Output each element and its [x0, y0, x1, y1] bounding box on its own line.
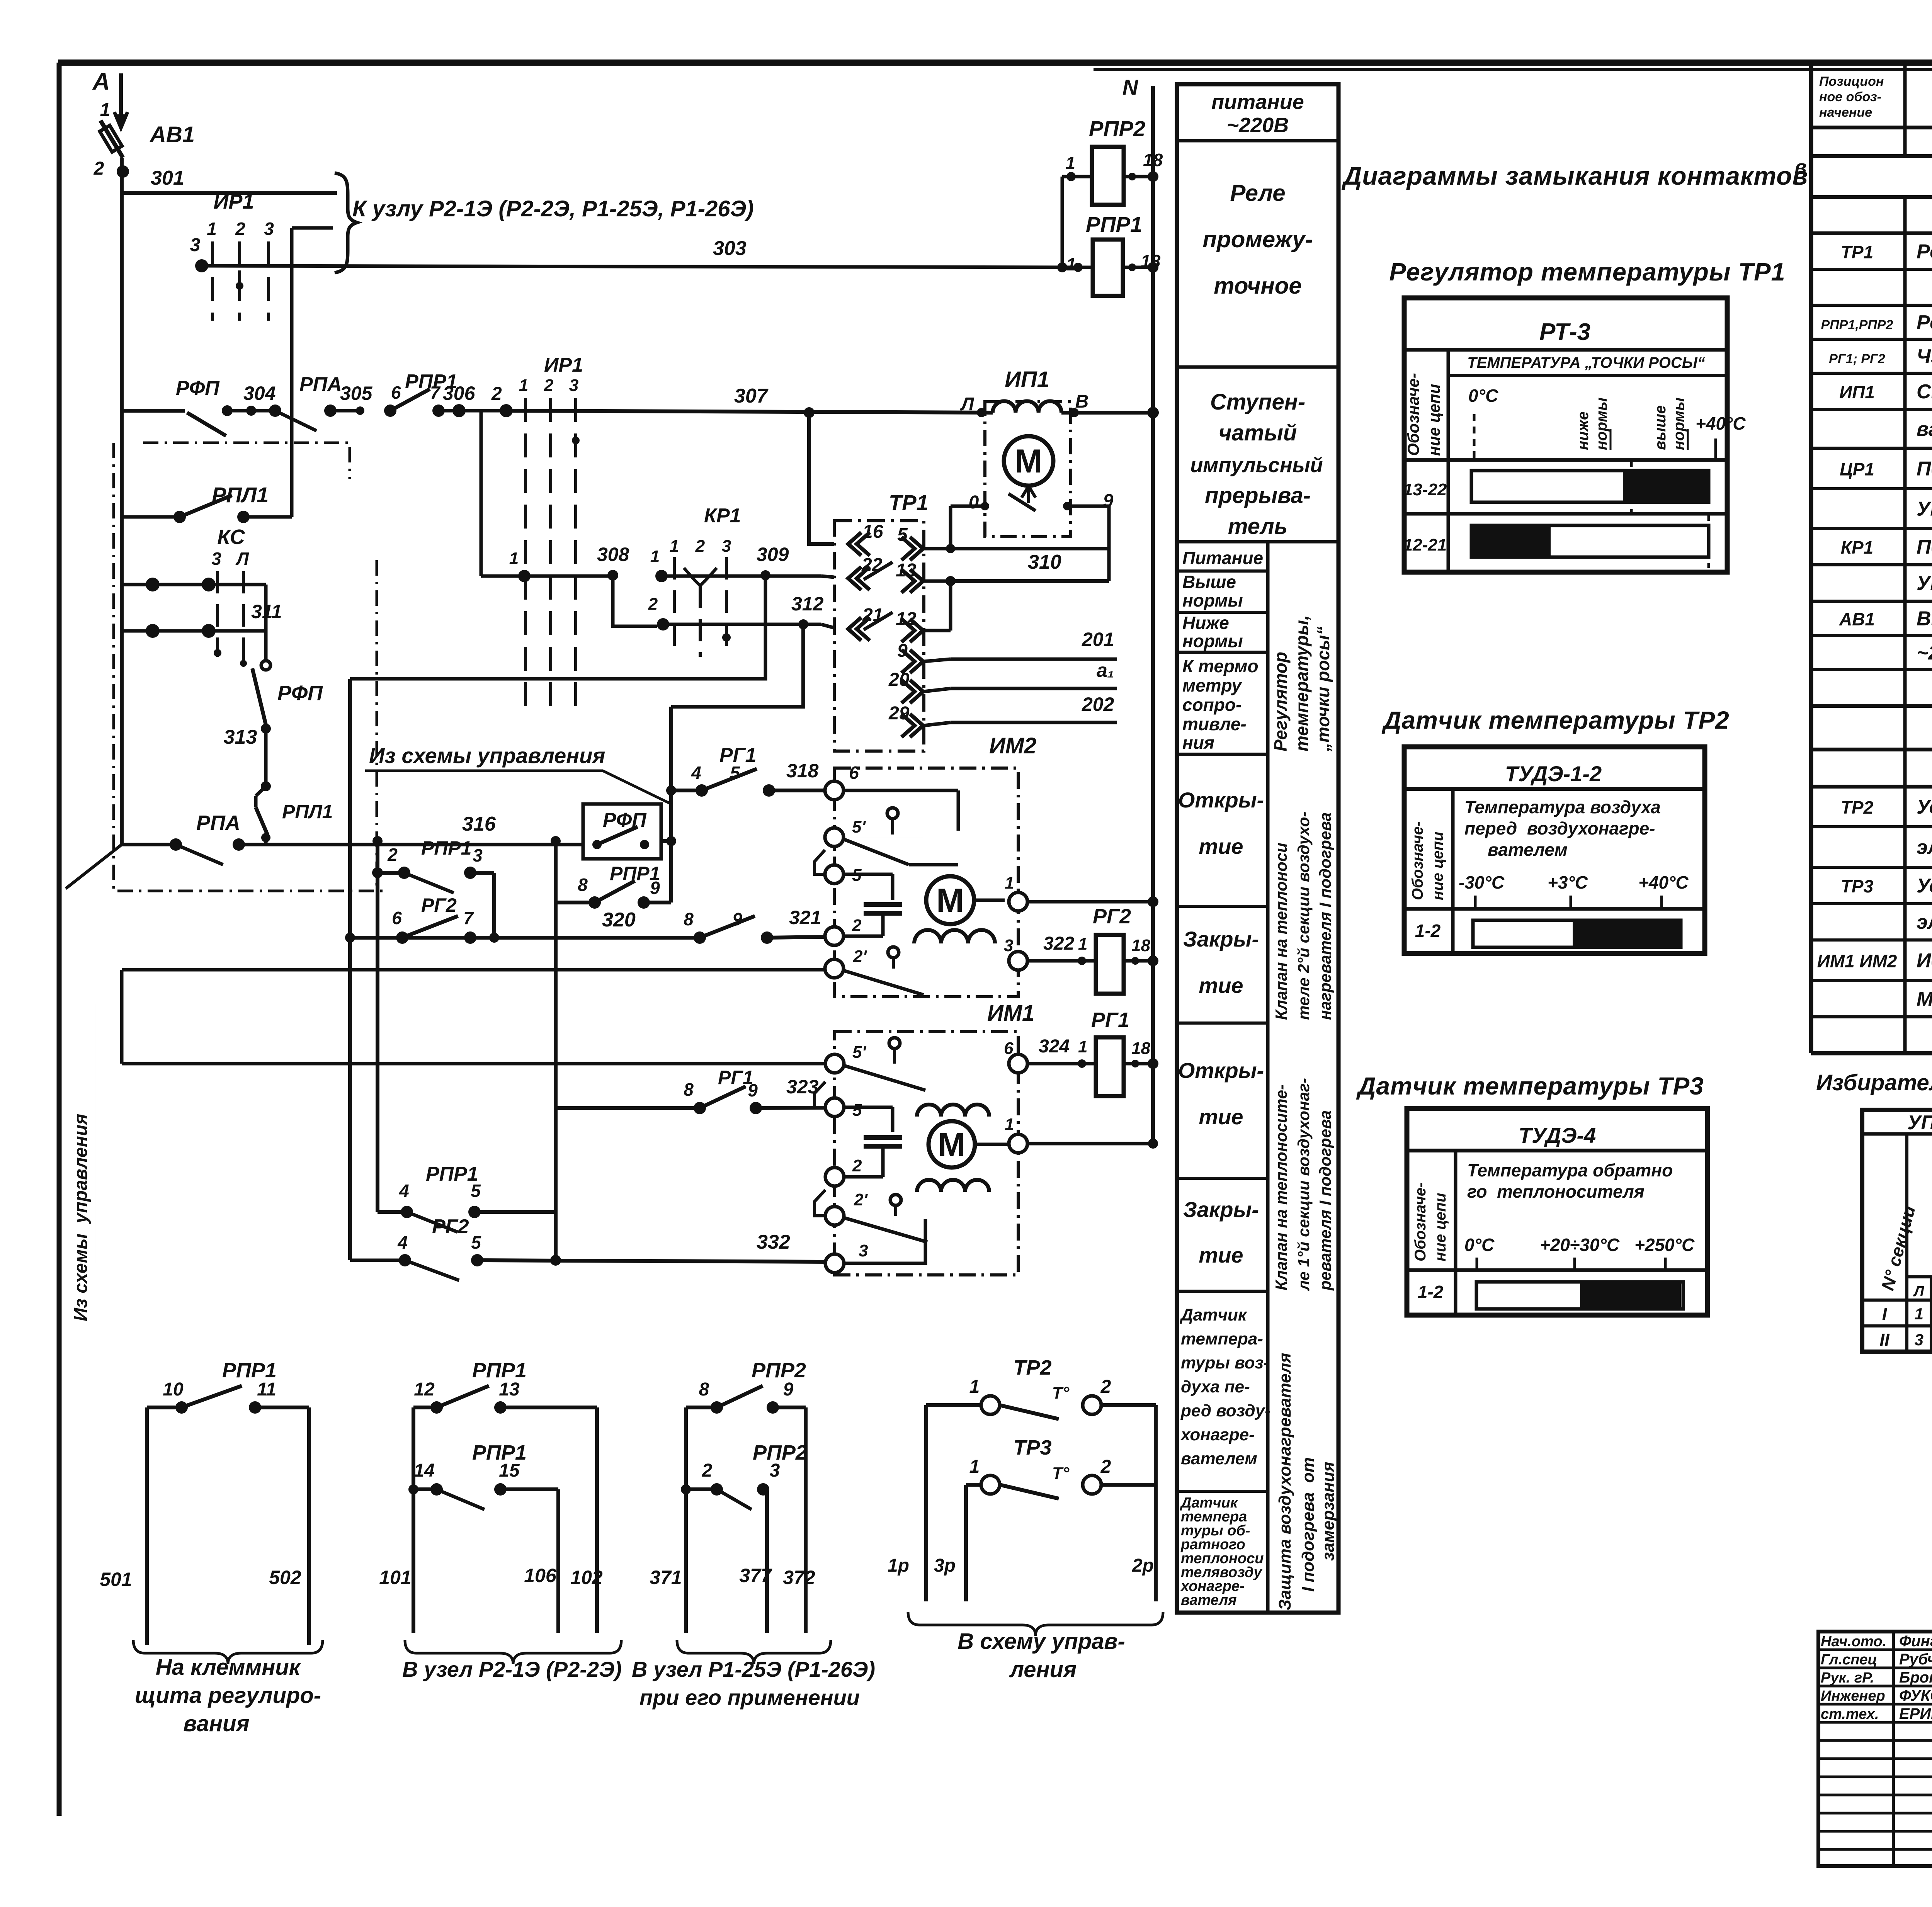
svg-text:13-22: 13-22 — [1403, 480, 1447, 499]
svg-text:1: 1 — [100, 100, 111, 120]
svg-text:322: 322 — [1043, 933, 1074, 954]
svg-text:при его применении: при его применении — [639, 1685, 860, 1710]
svg-text:14: 14 — [414, 1460, 434, 1481]
svg-text:импульсный: импульсный — [1190, 454, 1323, 477]
svg-text:РПЛ1: РПЛ1 — [212, 483, 269, 507]
svg-text:теле 2°й секции воздухо-: теле 2°й секции воздухо- — [1294, 812, 1313, 1020]
svg-text:ления: ления — [1009, 1657, 1077, 1682]
svg-text:16: 16 — [862, 522, 883, 542]
svg-text:1: 1 — [670, 537, 679, 556]
svg-text:Рук. гР.: Рук. гР. — [1821, 1670, 1874, 1686]
svg-text:щита регулиро-: щита регулиро- — [135, 1683, 321, 1708]
svg-text:8: 8 — [699, 1379, 709, 1400]
svg-text:Закры-: Закры- — [1183, 1197, 1259, 1222]
IM2 capacitor — [864, 902, 902, 907]
svg-text:1: 1 — [519, 376, 528, 395]
svg-text:I подогрева от: I подогрева от — [1299, 1457, 1318, 1592]
svg-text:К термо: К термо — [1182, 656, 1259, 676]
svg-text:ное обоз-: ное обоз- — [1819, 90, 1881, 104]
wire 309 branch down-left — [350, 575, 765, 679]
svg-text:ТР2: ТР2 — [1013, 1356, 1051, 1379]
svg-text:Закры-: Закры- — [1183, 927, 1259, 951]
svg-text:6: 6 — [391, 382, 401, 403]
svg-text:2: 2 — [695, 537, 705, 556]
svg-text:перед воздухонагре-: перед воздухонагре- — [1464, 818, 1655, 838]
svg-text:Позицион: Позицион — [1819, 74, 1884, 89]
svg-text:313: 313 — [224, 726, 257, 748]
IM1 terminal 2prime contact — [825, 1207, 844, 1225]
svg-text:1-2: 1-2 — [1418, 1282, 1444, 1302]
svg-text:501: 501 — [100, 1569, 132, 1590]
wire IR1-to-RPL1 vertical — [290, 267, 294, 517]
svg-text:ле 1°й секции воздухонаг-: ле 1°й секции воздухонаг- — [1294, 1078, 1313, 1291]
svg-text:тие: тие — [1199, 1105, 1243, 1129]
svg-text:РТ-3: РТ-3 — [1539, 319, 1590, 345]
svg-text:9: 9 — [897, 641, 908, 661]
svg-text:5: 5 — [730, 763, 740, 783]
svg-text:тие: тие — [1199, 834, 1243, 858]
svg-text:18: 18 — [1131, 936, 1150, 955]
svg-text:духа пе-: духа пе- — [1181, 1377, 1250, 1396]
svg-text:УП 53.11- С 225 ТУ16-52: УП 53.11- С 225 ТУ16-524. 074-75 — [1917, 498, 1932, 520]
svg-text:3: 3 — [264, 219, 274, 239]
svg-text:2: 2 — [544, 376, 554, 395]
wire 301 — [122, 191, 337, 195]
svg-text:ние цепи: ние цепи — [1432, 1193, 1449, 1261]
svg-text:Ступенчатый импульсный преры: Ступенчатый импульсный преры- — [1917, 381, 1932, 403]
bus A vertical — [120, 158, 124, 845]
svg-text:тель: тель — [1228, 514, 1287, 539]
svg-text:2: 2 — [491, 384, 502, 404]
TR1 contact 16 — [848, 532, 861, 556]
IM1 terminal 2 — [825, 1168, 844, 1186]
svg-text:ТУДЭ-4: ТУДЭ-4 — [1519, 1123, 1596, 1147]
svg-text:ТР3: ТР3 — [1013, 1436, 1051, 1459]
svg-text:5': 5' — [852, 1043, 866, 1062]
svg-text:1-2: 1-2 — [1415, 921, 1441, 941]
svg-text:4: 4 — [397, 1232, 408, 1253]
svg-text:Устройство терморегулирующее: Устройство терморегулирующее — [1917, 875, 1932, 897]
svg-text:температуры,: температуры, — [1292, 615, 1312, 751]
svg-text:РФП: РФП — [277, 682, 323, 705]
svg-text:Ступен-: Ступен- — [1210, 389, 1305, 415]
KS row1 — [122, 583, 266, 586]
svg-text:+20÷30°С: +20÷30°С — [1540, 1235, 1620, 1255]
RFP relay box — [583, 804, 661, 859]
svg-text:КС: КС — [217, 525, 245, 549]
svg-text:РПА: РПА — [196, 811, 240, 835]
svg-text:12-21: 12-21 — [1403, 535, 1447, 554]
svg-text:ИМ2: ИМ2 — [989, 733, 1036, 758]
IM2 terminal 1 wire to N — [1009, 892, 1027, 911]
IM2 terminal 3 wire 322 — [1009, 952, 1027, 970]
svg-text:310: 310 — [1028, 551, 1061, 573]
svg-text:12: 12 — [896, 609, 917, 629]
svg-text:202: 202 — [1082, 693, 1114, 715]
svg-text:1: 1 — [1078, 935, 1087, 953]
svg-text:1: 1 — [1005, 874, 1014, 892]
svg-text:Из схемы управления: Из схемы управления — [71, 1114, 91, 1321]
svg-text:Чз + Чр ТУ16-523. 4: Чз + Чр ТУ16-523. 437-74 — [1917, 345, 1932, 368]
svg-text:ИР1: ИР1 — [214, 190, 254, 213]
IM1 terminal 5prime contact — [825, 1054, 844, 1073]
svg-text:В: В — [1075, 391, 1089, 412]
svg-text:ТР3: ТР3 — [1841, 876, 1874, 896]
svg-text:372: 372 — [783, 1567, 815, 1588]
diagram table RT-3 — [1404, 298, 1727, 572]
TR1 contact 13 — [910, 569, 923, 593]
middle legend table frame — [1177, 84, 1338, 1613]
svg-text:5: 5 — [471, 1181, 481, 1201]
svg-text:+40°С: +40°С — [1696, 413, 1746, 433]
svg-text:ЦР1: ЦР1 — [1840, 459, 1874, 479]
svg-text:Реле промежуточное ПЭ-21-5УЗ: Реле промежуточное ПЭ-21-5УЗ ~220В — [1917, 311, 1932, 334]
svg-text:3: 3 — [473, 845, 483, 865]
svg-text:+3°С: +3°С — [1548, 872, 1588, 892]
svg-text:Фингер: Фингер — [1899, 1633, 1932, 1650]
TR1 contact 5 — [910, 537, 923, 560]
svg-text:хонагре-: хонагре- — [1180, 1425, 1255, 1444]
svg-text:нормы: нормы — [1182, 590, 1243, 610]
svg-text:АВ1: АВ1 — [149, 122, 195, 147]
svg-text:8: 8 — [684, 1079, 694, 1100]
svg-text:Т°: Т° — [1052, 1384, 1070, 1402]
svg-text:Переключатель универсальный: Переключатель универсальный — [1917, 536, 1932, 558]
svg-text:2: 2 — [648, 595, 658, 614]
svg-text:307: 307 — [734, 385, 769, 407]
svg-text:выше: выше — [1652, 405, 1669, 450]
svg-text:201: 201 — [1082, 629, 1114, 650]
TR1 contact 29 wire 202 — [910, 714, 923, 737]
wire 303 — [202, 266, 1093, 267]
svg-text:туры воз-: туры воз- — [1181, 1353, 1269, 1372]
IM1 terminal 5 — [825, 1098, 844, 1117]
svg-text:-30°С: -30°С — [1459, 872, 1505, 892]
svg-text:Бронштейн: Бронштейн — [1899, 1669, 1932, 1686]
svg-text:сопро-: сопро- — [1182, 695, 1242, 715]
svg-text:Температура обратно: Температура обратно — [1467, 1160, 1673, 1180]
svg-text:~220А, Jн=1,6А;Jотс=1,3Jн Т: ~220А, Jн=1,6А;Jотс=1,3Jн ТУ16-522.110-7… — [1917, 642, 1932, 664]
svg-text:замерзания: замерзания — [1319, 1462, 1338, 1561]
svg-text:5: 5 — [471, 1232, 481, 1253]
enclosure dash-dot boundary — [143, 443, 350, 479]
svg-text:I: I — [1882, 1304, 1888, 1324]
title block signature table — [1818, 1632, 1932, 1866]
vertical 308 feed — [480, 411, 483, 576]
svg-text:Выше: Выше — [1182, 572, 1236, 592]
svg-text:13: 13 — [499, 1379, 520, 1400]
TR1 contact 9 wire 201 — [910, 650, 923, 673]
svg-text:6: 6 — [392, 908, 402, 928]
svg-text:РФП: РФП — [603, 809, 647, 831]
svg-text:Рубчински: Рубчински — [1899, 1651, 1932, 1668]
svg-text:Откры-: Откры- — [1178, 788, 1264, 812]
svg-text:8: 8 — [684, 909, 694, 929]
IM2 internal upper contact — [825, 828, 844, 846]
svg-text:A: A — [92, 68, 110, 95]
svg-text:РПР2: РПР2 — [752, 1359, 806, 1382]
svg-text:+250°С: +250°С — [1634, 1235, 1695, 1255]
svg-text:15: 15 — [499, 1460, 520, 1481]
svg-text:1: 1 — [1066, 254, 1076, 274]
svg-text:502: 502 — [269, 1567, 301, 1588]
svg-text:Л: Л — [235, 549, 249, 569]
svg-text:3: 3 — [211, 549, 221, 569]
svg-text:1: 1 — [509, 549, 519, 568]
svg-text:Нач.ото.: Нач.ото. — [1821, 1633, 1886, 1650]
wire 324 row RG1 coil — [1009, 1054, 1027, 1073]
svg-text:321: 321 — [789, 907, 821, 928]
svg-text:Датчик: Датчик — [1179, 1305, 1248, 1324]
svg-text:~220В: ~220В — [1227, 114, 1289, 137]
page border frame — [58, 59, 1932, 66]
svg-text:320: 320 — [602, 909, 636, 931]
IM2 terminal 5 — [825, 865, 844, 884]
svg-text:УП 5311- А 225 ТУ16-524.: УП 5311- А 225 ТУ16-524. 074-75 — [1917, 572, 1932, 595]
svg-text:9: 9 — [650, 878, 660, 898]
svg-text:5: 5 — [897, 525, 908, 545]
svg-text:1: 1 — [650, 547, 660, 566]
svg-text:5: 5 — [852, 1101, 862, 1120]
parts table rows — [1811, 154, 1932, 158]
svg-text:РТ-3 ТУ25-02. 202114-: РТ-3 ТУ25-02. 202114-78 — [1917, 277, 1932, 299]
svg-text:7: 7 — [430, 382, 441, 403]
svg-text:102: 102 — [570, 1567, 603, 1588]
svg-text:304: 304 — [243, 382, 276, 404]
svg-text:ревателя I подогрева: ревателя I подогрева — [1316, 1110, 1334, 1291]
svg-text:вания: вания — [183, 1711, 249, 1736]
svg-text:Регулятор: Регулятор — [1270, 652, 1291, 751]
svg-text:1: 1 — [1078, 1037, 1087, 1056]
svg-text:11: 11 — [257, 1379, 276, 1400]
svg-text:КР1: КР1 — [704, 505, 741, 527]
svg-text:ИМ1 ИМ2: ИМ1 ИМ2 — [1817, 951, 1897, 971]
svg-text:Датчик температуры ТР3: Датчик температуры ТР3 — [1356, 1072, 1704, 1100]
svg-text:0°С: 0°С — [1468, 386, 1498, 406]
svg-text:1: 1 — [1005, 1115, 1014, 1134]
svg-text:Защита воздухонагревателя: Защита воздухонагревателя — [1276, 1353, 1294, 1610]
IM1 terminal 1 wire to N — [1009, 1134, 1027, 1153]
svg-text:нормы: нормы — [1593, 398, 1610, 450]
svg-text:318: 318 — [786, 760, 819, 782]
svg-text:промежу-: промежу- — [1202, 226, 1313, 252]
svg-text:КР1: КР1 — [1841, 537, 1874, 557]
svg-text:ФУКС: ФУКС — [1899, 1687, 1932, 1704]
svg-text:На клеммник: На клеммник — [156, 1655, 301, 1680]
incoming lead from scheme — [66, 845, 122, 889]
svg-text:РПР2: РПР2 — [1089, 116, 1145, 141]
svg-text:тие: тие — [1199, 1243, 1243, 1267]
svg-text:+40°С: +40°С — [1638, 872, 1689, 892]
svg-text:3: 3 — [190, 235, 201, 255]
svg-text:3: 3 — [1915, 1331, 1923, 1349]
svg-text:20: 20 — [888, 670, 910, 690]
svg-text:3р: 3р — [934, 1555, 956, 1576]
svg-text:нормы: нормы — [1670, 398, 1687, 450]
svg-text:Выключатель автоматический А6: Выключатель автоматический А63-МУЗ — [1917, 608, 1932, 630]
svg-text:ИМ1: ИМ1 — [987, 1001, 1034, 1026]
svg-text:Регулятор температуры электрич: Регулятор температуры электрический — [1917, 241, 1932, 263]
svg-text:РГ2: РГ2 — [421, 894, 457, 916]
svg-text:ние цепи: ние цепи — [1425, 384, 1443, 456]
svg-text:тивле-: тивле- — [1182, 714, 1247, 734]
vertical wire 307 to TR1 contact 16 — [804, 407, 815, 418]
wire 307 to N — [1061, 411, 1153, 415]
svg-text:Устройство терморегулирующее: Устройство терморегулирующее — [1917, 796, 1932, 818]
svg-text:ватель СИП-01М ТУ5: ватель СИП-01М ТУ50.108-77 — [1917, 418, 1932, 440]
svg-text:371: 371 — [650, 1567, 682, 1588]
svg-text:9: 9 — [783, 1379, 794, 1400]
svg-text:2: 2 — [1100, 1457, 1111, 1477]
svg-text:Клапан на теплоносите-: Клапан на теплоносите- — [1272, 1084, 1290, 1290]
TR1 contact 12 — [910, 619, 923, 642]
svg-text:Т°: Т° — [1052, 1464, 1070, 1483]
svg-text:3: 3 — [569, 376, 578, 395]
TR1 contact 21 — [848, 617, 861, 641]
svg-text:К узлу Р2-1Э (Р2-2Э, Р1-25Э, Р: К узлу Р2-1Э (Р2-2Э, Р1-25Э, Р1-26Э) — [352, 196, 754, 221]
legend column divider — [1266, 542, 1270, 1613]
svg-text:Гл.спец: Гл.спец — [1821, 1652, 1877, 1668]
svg-text:10: 10 — [163, 1379, 184, 1400]
svg-text:309: 309 — [757, 544, 789, 565]
svg-text:0°С: 0°С — [1464, 1235, 1495, 1255]
svg-text:305: 305 — [340, 382, 373, 404]
svg-text:ниже: ниже — [1575, 411, 1592, 450]
svg-text:Питание: Питание — [1182, 548, 1263, 568]
svg-text:a₁: a₁ — [1097, 659, 1114, 681]
svg-text:прерыва-: прерыва- — [1205, 483, 1311, 508]
svg-text:6: 6 — [849, 763, 859, 783]
svg-text:МЭО-0,63 / 63-0,25: МЭО-0,63 / 63-0,25 ТУ1-01. 0321-76 — [1917, 988, 1932, 1010]
svg-text:4: 4 — [399, 1181, 409, 1201]
svg-text:Исполнительный механизм: Исполнительный механизм — [1917, 950, 1932, 972]
selector table УП 5311- С 225 — [1862, 1110, 1932, 1352]
svg-text:чатый: чатый — [1219, 420, 1297, 445]
svg-text:РПР1: РПР1 — [421, 837, 471, 859]
svg-text:электрическое ТУДЭ-4 ТУ25: электрическое ТУДЭ-4 ТУ25-02.1074-75 — [1917, 911, 1932, 933]
svg-text:101: 101 — [379, 1567, 411, 1588]
svg-text:ТР1: ТР1 — [889, 490, 929, 515]
IM2 terminal 2 wire 321 — [825, 927, 844, 945]
svg-text:308: 308 — [597, 544, 629, 565]
svg-text:РГ1; РГ2: РГ1; РГ2 — [1829, 352, 1885, 366]
svg-text:УП 5311- С 225: УП 5311- С 225 — [1907, 1112, 1932, 1134]
svg-text:ТР1: ТР1 — [1841, 242, 1873, 262]
svg-text:Обозначе-: Обозначе- — [1412, 1183, 1429, 1262]
svg-text:324: 324 — [1039, 1036, 1070, 1057]
svg-text:Обозначе-: Обозначе- — [1404, 373, 1422, 456]
svg-text:1: 1 — [1915, 1305, 1923, 1323]
svg-text:Л: Л — [1913, 1283, 1924, 1300]
svg-text:РПР1: РПР1 — [222, 1359, 277, 1382]
svg-text:ИП1: ИП1 — [1005, 367, 1049, 392]
svg-text:2: 2 — [1100, 1377, 1111, 1397]
svg-text:Из схемы управления: Из схемы управления — [369, 743, 605, 768]
svg-text:Температура воздуха: Температура воздуха — [1464, 797, 1661, 817]
svg-text:вателя: вателя — [1181, 1592, 1237, 1608]
wire 312 branch down-left — [671, 624, 803, 707]
svg-text:точное: точное — [1214, 273, 1301, 299]
svg-text:Л: Л — [960, 394, 975, 415]
svg-text:РПА: РПА — [299, 373, 342, 396]
svg-text:РФП: РФП — [176, 377, 220, 399]
svg-text:АВ1: АВ1 — [1839, 609, 1875, 629]
svg-text:Реле: Реле — [1230, 180, 1285, 206]
svg-text:Датчик температуры ТР2: Датчик температуры ТР2 — [1381, 706, 1730, 734]
svg-text:Регулятор температуры ТР1: Регулятор температуры ТР1 — [1389, 258, 1785, 286]
svg-text:Диаграммы замыкания контактов: Диаграммы замыкания контактов — [1342, 161, 1808, 190]
svg-text:2': 2' — [854, 1190, 868, 1209]
TR1 contact 20 wire a1 — [910, 680, 923, 703]
svg-text:13: 13 — [896, 560, 917, 581]
svg-text:303: 303 — [713, 237, 747, 260]
svg-text:ния: ния — [1182, 733, 1214, 753]
svg-text:1р: 1р — [888, 1555, 909, 1576]
svg-text:1: 1 — [1065, 153, 1075, 173]
svg-text:7: 7 — [463, 908, 474, 928]
svg-text:РПЛ1: РПЛ1 — [282, 801, 333, 823]
svg-text:2: 2 — [702, 1460, 713, 1481]
svg-text:12: 12 — [414, 1379, 435, 1400]
svg-text:„точки росы“: „точки росы“ — [1313, 626, 1333, 752]
svg-text:3: 3 — [859, 1241, 868, 1260]
diagram table TUDE-4 — [1407, 1108, 1708, 1315]
svg-text:18: 18 — [1131, 1039, 1150, 1058]
svg-text:РГ2: РГ2 — [1093, 905, 1131, 928]
long wire to IM1 5prime — [122, 1062, 825, 1066]
svg-text:ИП1: ИП1 — [1839, 382, 1875, 402]
svg-text:2': 2' — [853, 947, 867, 966]
svg-text:N: N — [1122, 75, 1139, 99]
IP1 motor — [1004, 436, 1053, 486]
svg-text:электрическое ТУДЭ-1-2 Т: электрическое ТУДЭ-1-2 ТУ25-02.1074-75 — [1917, 836, 1932, 859]
KS row2 wire 311 — [122, 629, 266, 633]
svg-text:Избиратель регулирования ИР1: Избиратель регулирования ИР1 — [1816, 1070, 1932, 1095]
svg-text:В узел Р2-1Э (Р2-2Э): В узел Р2-1Э (Р2-2Э) — [402, 1657, 622, 1681]
svg-text:вателем: вателем — [1488, 840, 1568, 860]
svg-text:начение: начение — [1819, 105, 1872, 120]
svg-text:3: 3 — [722, 537, 731, 556]
svg-text:ред возду-: ред возду- — [1180, 1401, 1270, 1420]
svg-text:301: 301 — [151, 167, 184, 189]
svg-text:вателем: вателем — [1181, 1449, 1257, 1468]
svg-text:106: 106 — [524, 1565, 557, 1586]
svg-text:M: M — [938, 1126, 966, 1163]
svg-text:РПР1,РПР2: РПР1,РПР2 — [1821, 318, 1893, 332]
svg-text:ст.тех.: ст.тех. — [1821, 1706, 1879, 1722]
svg-text:1: 1 — [969, 1457, 980, 1477]
wire 310 — [951, 579, 1109, 583]
svg-text:ние цепи: ние цепи — [1429, 832, 1446, 900]
svg-text:29: 29 — [888, 703, 910, 724]
svg-text:ТУДЭ-1-2: ТУДЭ-1-2 — [1505, 761, 1602, 786]
svg-text:нормы: нормы — [1182, 631, 1243, 651]
svg-text:5': 5' — [852, 818, 866, 836]
svg-text:22: 22 — [861, 555, 883, 575]
svg-text:9: 9 — [732, 909, 742, 929]
vertical chain 313 with RFP contact — [264, 631, 268, 661]
IM1 terminal 3 wire 332 loop — [825, 1254, 844, 1273]
vertical to RG1 row — [669, 707, 673, 903]
svg-text:II: II — [1879, 1330, 1890, 1350]
svg-text:9: 9 — [748, 1080, 758, 1100]
TR1 contact 22 — [848, 567, 861, 590]
svg-text:316: 316 — [462, 813, 496, 835]
svg-text:3: 3 — [770, 1460, 780, 1481]
svg-text:ТЕМПЕРАТУРА „ТОЧКИ РОСЫ“: ТЕМПЕРАТУРА „ТОЧКИ РОСЫ“ — [1467, 354, 1705, 371]
svg-text:Обозначе-: Обозначе- — [1409, 821, 1426, 901]
svg-text:6: 6 — [1004, 1039, 1014, 1058]
